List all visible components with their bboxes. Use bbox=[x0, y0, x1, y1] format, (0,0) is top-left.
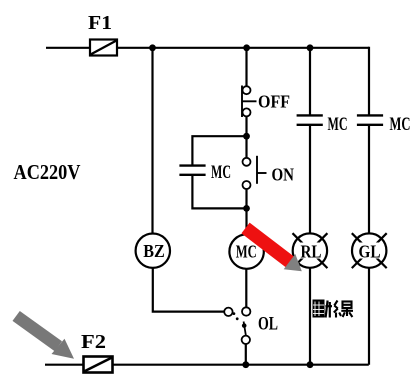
svg-text:MC: MC bbox=[390, 115, 411, 135]
wire: bottom bus bbox=[113, 364, 369, 366]
svg-text:RL: RL bbox=[301, 242, 322, 262]
annotation text broken-wire (hanzi xian) bbox=[334, 301, 353, 318]
svg-text:ON: ON bbox=[272, 165, 295, 185]
wire: OFF branch from top bus bbox=[245, 48, 247, 87]
wire: bottom bus left lead bbox=[45, 364, 83, 366]
fuse F2 bbox=[84, 357, 113, 373]
svg-text:MC: MC bbox=[236, 242, 257, 262]
svg-text:OFF: OFF bbox=[258, 92, 290, 112]
svg-text:OL: OL bbox=[258, 315, 278, 335]
wire: OL to bottom bus bbox=[245, 344, 247, 365]
node: top bus / RL branch bbox=[307, 44, 314, 51]
wire: top bus left lead bbox=[46, 47, 90, 49]
wire: top bus bbox=[117, 47, 369, 49]
wire: RL branch middle bbox=[309, 125, 311, 234]
wire: OFF to self-hold junction bbox=[245, 116, 247, 157]
contactor coil MC bbox=[229, 234, 263, 268]
wire: ON to MC coil bbox=[245, 189, 247, 235]
node: self-hold bottom junction bbox=[243, 205, 250, 212]
wire: self-hold branch bottom bbox=[192, 175, 246, 208]
buzzer BZ bbox=[136, 234, 170, 268]
wire: GL branch middle bbox=[368, 125, 370, 234]
wire: RL branch lower bbox=[309, 268, 311, 365]
wire: BZ branch vertical bbox=[151, 48, 153, 234]
svg-text:MC: MC bbox=[328, 115, 348, 135]
node: top bus / BZ branch bbox=[149, 44, 156, 51]
pushbutton OFF (NC) bbox=[242, 86, 257, 118]
svg-text:F1: F1 bbox=[88, 12, 112, 34]
wire: GL branch upper bbox=[368, 47, 370, 115]
contact MC self-holding (NO) bbox=[179, 166, 205, 175]
node: top bus / control branch bbox=[243, 44, 250, 51]
pushbutton ON (NO) bbox=[243, 156, 267, 189]
fuse F1 bbox=[90, 40, 117, 56]
contact MC in GL branch (NO) bbox=[357, 115, 383, 124]
annotation arrow (red) pointing at RL circuit bbox=[241, 223, 301, 272]
annotation arrow (gray) pointing at F2 bbox=[13, 311, 75, 359]
annotation text broken-wire (hanzi duan) bbox=[313, 300, 354, 318]
contact MC in RL branch (NO) bbox=[297, 115, 323, 124]
svg-text:F2: F2 bbox=[81, 331, 106, 353]
wire: BZ to OL NO contact bbox=[153, 268, 224, 312]
overload contact OL bbox=[224, 307, 250, 344]
svg-text:BZ: BZ bbox=[143, 241, 165, 261]
wire: RL branch upper bbox=[309, 48, 311, 115]
wire: GL branch lower bbox=[368, 268, 370, 365]
lamp GL bbox=[352, 233, 387, 268]
svg-text:AC220V: AC220V bbox=[14, 160, 81, 184]
node: self-hold top junction bbox=[243, 133, 250, 140]
svg-text:GL: GL bbox=[359, 242, 381, 262]
svg-text:MC: MC bbox=[211, 163, 231, 183]
lamp RL bbox=[293, 233, 328, 268]
node: bottom bus / RL branch bbox=[307, 361, 314, 368]
wire: self-hold branch top bbox=[192, 136, 246, 165]
node: bottom bus / OL branch bbox=[242, 361, 249, 368]
wire: MC coil to OL bbox=[245, 269, 247, 307]
